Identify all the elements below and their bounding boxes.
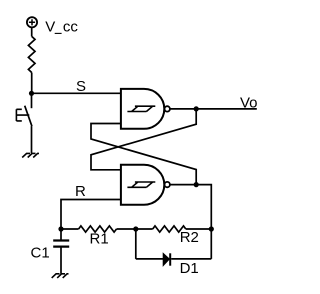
switch SW1 (pushbutton to ground): [16, 93, 32, 126]
output bubble U1b: [165, 182, 170, 187]
resistor (pull-up, unlabeled): [28, 36, 35, 72]
wire cross-coupling U1a input 2 to Qbar: [91, 124, 196, 185]
nand gate U1a (Schmitt): [121, 89, 164, 129]
diode D1: [163, 253, 170, 265]
hysteresis symbol U1a: [127, 106, 155, 111]
power terminal V_cc: [27, 17, 37, 27]
label V_cc: [45, 18, 78, 35]
resistor R1: [79, 226, 117, 232]
wire R1 to mid junction: [117, 228, 153, 230]
ground (below switch): [22, 153, 39, 157]
ground (below C1): [52, 274, 69, 278]
svg-text:C1: C1: [31, 245, 50, 262]
svg-text:R1: R1: [90, 230, 109, 247]
wire R (node R to gate U1b input 2): [61, 200, 121, 241]
wire U1b output to right rail: [170, 185, 211, 259]
svg-text:R2: R2: [180, 229, 199, 246]
wire V_cc to resistor: [31, 27, 33, 36]
svg-text:R: R: [75, 183, 86, 200]
wire switch to ground: [31, 126, 33, 153]
wire cross-coupling Q to U1b input 1: [91, 109, 196, 170]
svg-text:D1: D1: [180, 260, 199, 277]
wire diode row left: [136, 258, 163, 260]
wire C1 to ground: [60, 247, 62, 274]
node Q junction (U1a output): [194, 106, 199, 111]
node S junction: [29, 91, 34, 96]
wire S (node S to gate U1a input 1): [32, 92, 121, 94]
nand gate U1b (Schmitt): [121, 165, 164, 205]
wire U1a output to Vo: [170, 108, 257, 110]
resistor R2: [153, 226, 186, 232]
node R-C junction: [58, 226, 63, 231]
node Qbar junction (U1b output): [194, 182, 199, 187]
wire mid junction down to diode row: [135, 229, 137, 259]
capacitor C1: [53, 241, 69, 247]
node R1-R2-D1 junction: [133, 226, 138, 231]
output bubble U1a: [165, 106, 170, 111]
hysteresis symbol U1b: [127, 182, 155, 187]
wire node R-C to R1: [61, 228, 79, 230]
svg-text:cc: cc: [63, 18, 79, 35]
svg-text:V: V: [45, 18, 55, 35]
wire diode row right: [171, 258, 211, 260]
svg-text:S: S: [76, 78, 86, 95]
node R2-rail junction: [209, 226, 214, 231]
wire R2 to right rail junction: [186, 228, 212, 230]
wire resistor to node S: [31, 73, 33, 94]
svg-text:Vo: Vo: [240, 95, 258, 112]
